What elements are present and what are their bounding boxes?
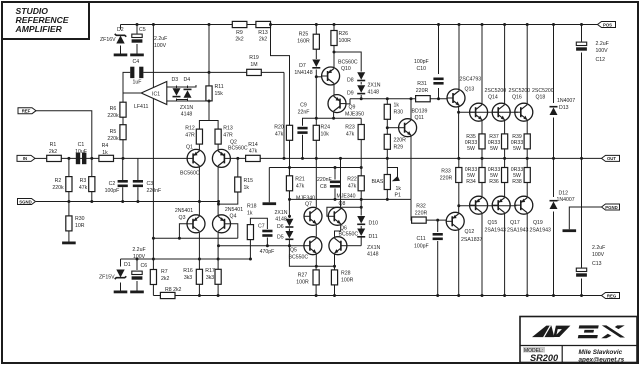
transistor Q8 — [328, 194, 355, 226]
resistor R36 — [488, 167, 508, 185]
capacitor C2 — [105, 180, 128, 194]
svg-text:R25: R25 — [299, 32, 309, 38]
wire R34 to Q15 emitter — [481, 183, 483, 198]
svg-text:R13: R13 — [258, 30, 268, 36]
svg-text:1M: 1M — [250, 62, 257, 68]
svg-text:2SA1943: 2SA1943 — [530, 228, 551, 234]
transistor Q2 — [212, 140, 247, 168]
wire Q13 collector column — [458, 25, 460, 90]
diode D10 — [357, 216, 378, 227]
svg-text:2k2: 2k2 — [259, 37, 267, 43]
wire IC supply column — [152, 25, 154, 260]
wire R35 to out rail — [481, 149, 483, 159]
wire Q3 base jog — [179, 224, 187, 238]
svg-text:Q15: Q15 — [488, 220, 498, 226]
junction dot at Q11 base — [386, 126, 389, 129]
wire Q3 Q4 base bias line — [153, 237, 237, 239]
diode D11 — [357, 229, 380, 258]
capacitor C4 — [130, 59, 143, 86]
svg-text:2SC5200: 2SC5200 — [532, 88, 554, 94]
diode D7 — [294, 60, 320, 77]
MODEL text — [523, 347, 545, 353]
wire R24 column — [315, 118, 317, 125]
wire D1 column — [120, 259, 122, 267]
svg-text:C13: C13 — [592, 261, 602, 267]
svg-text:47k: 47k — [296, 184, 305, 190]
svg-text:C8: C8 — [320, 184, 327, 190]
node OUT — [602, 155, 620, 161]
wire REF line — [36, 111, 92, 159]
wire IC1 output to C4 and R6 — [123, 72, 141, 93]
svg-text:1k: 1k — [394, 103, 400, 109]
resistor R32 — [412, 204, 428, 224]
footer APEX logo box — [520, 317, 637, 364]
resistor R8 — [160, 287, 181, 299]
svg-text:D11: D11 — [369, 234, 378, 240]
wire D11 to Q6 base — [347, 245, 361, 247]
wire predriver base line — [350, 98, 416, 100]
svg-text:1k: 1k — [247, 211, 253, 217]
svg-text:MJE350: MJE350 — [345, 112, 364, 118]
svg-text:D8: D8 — [347, 78, 354, 84]
svg-text:2.2uF: 2.2uF — [132, 247, 145, 253]
capacitor C3 — [133, 180, 161, 194]
wire Q14 emitter to R35 — [481, 121, 483, 134]
wire D2 column — [120, 25, 122, 30]
svg-text:R6: R6 — [110, 106, 117, 112]
op-amp IC1 — [134, 82, 167, 111]
svg-text:Q3: Q3 — [179, 215, 186, 221]
svg-text:D2: D2 — [117, 27, 124, 33]
wire D13 column — [553, 25, 555, 104]
resistor R35 — [465, 134, 485, 152]
transistor Q10 — [322, 60, 358, 86]
svg-text:R30: R30 — [75, 216, 85, 222]
svg-text:BC560C: BC560C — [228, 146, 248, 152]
wire D9 bottom to base line — [360, 95, 362, 99]
svg-text:Q5: Q5 — [290, 248, 297, 254]
svg-text:Q18: Q18 — [536, 95, 546, 101]
svg-text:R33: R33 — [441, 169, 451, 175]
wire bottom negative rail — [153, 295, 160, 297]
resistor R9 — [232, 21, 247, 42]
transistor Q5 — [289, 237, 322, 261]
svg-text:2SA1943: 2SA1943 — [507, 228, 528, 234]
svg-text:2.2uF: 2.2uF — [596, 41, 609, 47]
svg-text:220R: 220R — [394, 138, 407, 144]
svg-text:47k: 47k — [346, 132, 355, 138]
svg-text:1k: 1k — [396, 186, 402, 192]
svg-text:10R: 10R — [75, 223, 85, 229]
wire Q4 base jog — [231, 224, 238, 238]
wire D8 D9 link — [360, 82, 362, 85]
transistor Q14 — [470, 88, 507, 121]
svg-text:R8 2k2: R8 2k2 — [165, 287, 182, 293]
capacitor C7 — [258, 224, 274, 256]
svg-text:R23: R23 — [345, 125, 355, 131]
svg-text:C12: C12 — [596, 57, 606, 63]
svg-text:2.2uF: 2.2uF — [154, 36, 167, 42]
wire R33 column — [458, 158, 460, 167]
svg-text:2N5401: 2N5401 — [175, 208, 193, 214]
svg-text:R30: R30 — [394, 110, 404, 116]
wire D5 to Q5 emitter line — [289, 246, 334, 267]
svg-text:R16: R16 — [183, 268, 193, 274]
resistor R28 — [331, 270, 353, 285]
wire R37 to out rail — [504, 149, 506, 159]
wire R12 to Q1 emitter — [198, 144, 200, 150]
ground PGND bar — [563, 229, 577, 232]
svg-text:2SC5200: 2SC5200 — [485, 88, 507, 94]
svg-text:R15: R15 — [244, 178, 254, 184]
junction dots on opamp feedback line — [208, 71, 211, 103]
svg-text:2X1N: 2X1N — [275, 210, 288, 216]
svg-text:C7: C7 — [258, 224, 265, 230]
resistor R13b — [215, 126, 233, 145]
wire M2 line — [290, 198, 412, 200]
wire C12 C13 column — [581, 25, 583, 42]
svg-text:2X1N: 2X1N — [368, 83, 381, 89]
wire C10 column — [438, 25, 440, 75]
zener D2 — [100, 27, 126, 44]
resistor R26 — [331, 31, 351, 46]
svg-text:R29: R29 — [394, 145, 404, 151]
wire IC1 input stubs with D3 D4 — [167, 85, 196, 87]
svg-text:IN: IN — [23, 156, 27, 161]
svg-text:R7: R7 — [161, 269, 168, 275]
wire R15 column — [237, 158, 239, 177]
wire Q11 base — [387, 127, 398, 129]
wire Q7 collector up to mid rail — [315, 158, 317, 207]
svg-text:5W: 5W — [467, 146, 475, 152]
wire R11 column — [208, 25, 210, 86]
resistor R21 — [286, 176, 304, 191]
diode D4 — [180, 77, 194, 118]
wire C9 top corner — [303, 118, 317, 126]
svg-text:D10: D10 — [369, 221, 379, 227]
svg-text:Q1: Q1 — [186, 145, 193, 151]
resistor R1 — [47, 142, 62, 161]
wire top positive rail — [121, 24, 233, 26]
resistor R15 — [235, 177, 253, 192]
svg-text:220nF: 220nF — [317, 177, 332, 183]
svg-text:Q8: Q8 — [339, 201, 346, 207]
svg-text:10uF: 10uF — [75, 149, 87, 155]
svg-text:R2: R2 — [55, 178, 62, 184]
ground under C5 — [130, 54, 144, 57]
node IN — [17, 155, 35, 161]
svg-text:5W: 5W — [490, 146, 498, 152]
wire diff pair tail — [199, 121, 218, 130]
svg-text:R12: R12 — [185, 126, 195, 132]
svg-text:470pF: 470pF — [260, 249, 275, 255]
capacitor C11 — [414, 233, 443, 250]
svg-text:R20: R20 — [274, 125, 284, 131]
wire R19 feedback column — [283, 72, 285, 158]
resistor R2 — [52, 177, 72, 192]
svg-text:100pF: 100pF — [414, 59, 429, 65]
svg-text:220R: 220R — [416, 88, 429, 94]
wire Q10 collector node to D8 — [334, 52, 361, 72]
wire Q9 base jog to predriver line — [346, 99, 350, 104]
svg-text:BC560C: BC560C — [180, 171, 200, 177]
wire Q15 collector to neg rail — [481, 214, 483, 296]
svg-text:Q17: Q17 — [510, 220, 520, 226]
potentiometer P1 BIAS — [372, 168, 402, 199]
wire D7 node to Q10 base — [316, 76, 323, 78]
svg-text:Q13: Q13 — [465, 87, 475, 93]
svg-text:C10: C10 — [417, 66, 427, 72]
svg-text:2.2uF: 2.2uF — [592, 245, 605, 251]
svg-text:2k2: 2k2 — [235, 37, 243, 43]
svg-text:100pF: 100pF — [105, 188, 120, 194]
svg-text:D13: D13 — [559, 105, 569, 111]
transistor Q1 — [180, 145, 205, 177]
svg-text:4148: 4148 — [368, 90, 380, 96]
resistor R16 — [183, 268, 202, 284]
svg-text:4148: 4148 — [181, 112, 193, 118]
resistor R23 — [345, 125, 364, 140]
svg-text:ZX1N: ZX1N — [367, 245, 381, 251]
resistor R25 — [297, 32, 319, 50]
svg-text:1k: 1k — [244, 185, 250, 191]
wire R21 stubs — [289, 168, 291, 176]
capacitor C6 — [132, 247, 148, 280]
svg-text:2k2: 2k2 — [161, 276, 169, 282]
ground under R30 — [62, 242, 76, 245]
svg-text:220R: 220R — [415, 211, 428, 217]
capacitor C8 — [317, 177, 340, 190]
resistor R6 — [107, 102, 126, 119]
wire PGND line and stem — [569, 207, 601, 229]
junction dot at Q12 base — [436, 219, 439, 222]
svg-text:OUT: OUT — [607, 156, 616, 161]
resistor R18 — [247, 204, 257, 240]
capacitor C10 — [414, 59, 444, 85]
junction dots on line M2 — [288, 198, 389, 201]
wire Q8 emitter to Q6 — [335, 225, 341, 237]
svg-text:2k2: 2k2 — [49, 149, 57, 155]
junction dots on front-end negative line — [136, 258, 252, 261]
diode D6 — [277, 219, 293, 230]
svg-text:R27: R27 — [298, 273, 308, 279]
svg-text:5W: 5W — [513, 146, 521, 152]
svg-text:BC550C: BC550C — [339, 232, 359, 238]
svg-text:D3: D3 — [172, 77, 179, 83]
wire C2 column — [122, 158, 124, 180]
svg-text:C11: C11 — [417, 236, 426, 242]
svg-text:100R: 100R — [341, 278, 354, 284]
svg-text:Q12: Q12 — [465, 229, 475, 235]
wire rail branch to R20 column — [271, 25, 290, 126]
svg-text:1k: 1k — [102, 150, 108, 156]
wire PNP output base line — [459, 205, 517, 207]
junction dots on predriver base line — [360, 97, 440, 100]
svg-text:4148: 4148 — [275, 217, 287, 223]
wire D12 column — [553, 158, 555, 197]
svg-text:100pF: 100pF — [414, 244, 429, 250]
svg-text:R19: R19 — [249, 55, 259, 61]
svg-text:BC550C: BC550C — [289, 255, 309, 261]
svg-text:47k: 47k — [249, 149, 258, 155]
wire Q1 collector to Q3 — [198, 167, 200, 215]
junction dots on positive rail — [136, 23, 584, 26]
junction dots on bias line A — [217, 244, 291, 247]
wire Q3 collector down to line B — [198, 233, 200, 259]
resistor R27 — [296, 270, 319, 286]
resistor R37 — [488, 134, 508, 152]
diode D5 — [275, 210, 294, 241]
resistor R13 — [256, 21, 271, 42]
svg-text:1N4148: 1N4148 — [294, 70, 312, 76]
ground mid bar — [263, 202, 277, 205]
svg-text:R13: R13 — [223, 126, 233, 132]
svg-text:R32: R32 — [416, 204, 426, 210]
svg-text:100R: 100R — [339, 38, 352, 44]
wire Q4 collector down to line B — [217, 233, 219, 259]
svg-text:D1: D1 — [124, 262, 131, 268]
svg-text:47k: 47k — [348, 184, 357, 190]
wire R28 column — [334, 266, 336, 270]
transistor Q6 — [329, 226, 358, 255]
resistor R7 — [150, 269, 169, 285]
svg-text:P1: P1 — [395, 193, 401, 199]
svg-text:C1: C1 — [78, 142, 85, 148]
svg-text:220nF: 220nF — [147, 188, 162, 194]
svg-text:LF411: LF411 — [134, 104, 148, 110]
svg-text:Q10: Q10 — [341, 66, 351, 72]
svg-text:2N5401: 2N5401 — [225, 207, 243, 213]
junction dots on SGND line — [67, 200, 220, 206]
transistor Q9 — [328, 95, 364, 118]
transistor Q7 — [296, 196, 322, 226]
resistor R31 — [416, 81, 431, 102]
node POS — [598, 22, 616, 28]
svg-text:R17: R17 — [205, 268, 215, 274]
wire Q12 emitter stub — [458, 206, 460, 214]
wire Q7 emitter to Q5 — [315, 225, 317, 236]
transistor Q11 — [399, 109, 428, 137]
svg-text:47k: 47k — [275, 132, 284, 138]
svg-text:R31: R31 — [417, 81, 427, 87]
ground under D1 — [114, 291, 128, 294]
wire line A (bias line to Q5 base) — [219, 245, 307, 247]
wire Q18 collector column — [526, 25, 528, 105]
wire C11 column — [437, 220, 439, 232]
wire Q2 collector to Q4 — [217, 167, 219, 215]
svg-text:C4: C4 — [133, 59, 140, 65]
wire R7 column — [152, 259, 154, 270]
wire Q12 collector to neg rail — [458, 229, 460, 296]
svg-text:Q7: Q7 — [305, 202, 312, 208]
wire C6 column — [136, 259, 138, 270]
resistor R30a — [384, 103, 403, 120]
svg-text:apex@eunet.rs: apex@eunet.rs — [579, 357, 625, 364]
wire R13b to Q2 emitter — [217, 144, 219, 150]
svg-text:2SA1837: 2SA1837 — [461, 237, 482, 243]
resistor R12 — [185, 126, 202, 145]
svg-text:R14: R14 — [248, 142, 258, 148]
wire C5 column — [136, 25, 138, 34]
resistor R19 — [247, 55, 262, 76]
junction dots on input line — [67, 157, 124, 160]
resistor R29 — [384, 134, 406, 150]
svg-text:BD139: BD139 — [412, 109, 428, 115]
wire C3 column — [137, 158, 139, 180]
svg-text:220k: 220k — [107, 113, 119, 119]
wire R25 D7 column — [315, 25, 317, 35]
svg-text:BIAS: BIAS — [372, 179, 384, 185]
wire R26 column — [333, 25, 335, 31]
wire line 118.3 to R23b — [316, 117, 361, 119]
wire M1 ground stem — [268, 168, 270, 203]
wire M1 ground line — [269, 167, 361, 169]
svg-text:220k: 220k — [52, 185, 64, 191]
svg-text:220R: 220R — [440, 176, 453, 182]
wire Q14 collector column — [481, 25, 483, 105]
wire D6 D5 column — [288, 168, 290, 219]
ground under C6 — [130, 291, 144, 294]
svg-text:100R: 100R — [296, 280, 309, 286]
svg-text:SR200: SR200 — [530, 353, 559, 363]
svg-text:3k3: 3k3 — [184, 275, 192, 281]
resistor R3 — [79, 177, 95, 192]
capacitor C13 — [576, 245, 605, 277]
svg-text:22nF: 22nF — [298, 110, 310, 116]
resistor R5 — [107, 125, 126, 142]
resistor R33 — [440, 168, 462, 183]
svg-text:BC560C: BC560C — [338, 60, 358, 66]
resistor R24 — [313, 125, 330, 141]
transistor Q15 — [470, 196, 506, 233]
wire Q8 collector up to mid rail — [340, 158, 342, 207]
svg-text:1uF: 1uF — [133, 80, 142, 86]
APEX letter A — [532, 326, 554, 338]
resistor R38 — [511, 167, 531, 185]
svg-text:C2: C2 — [109, 181, 116, 187]
svg-text:4148: 4148 — [367, 252, 379, 258]
ground under D2 — [114, 54, 128, 57]
junction dots on Q5 Q6 emitter line — [315, 265, 336, 268]
svg-text:2SC5200: 2SC5200 — [509, 88, 531, 94]
wire C8 stubs — [334, 168, 336, 180]
transistor Q16 — [492, 88, 530, 121]
svg-text:R4: R4 — [102, 143, 109, 149]
wire Q18 emitter to R39 — [526, 121, 528, 134]
svg-text:1N4007: 1N4007 — [557, 98, 575, 104]
svg-text:100V: 100V — [596, 48, 609, 54]
junction dots on Q3 Q4 base bias line — [152, 237, 181, 240]
junction dots on VAS feed line — [315, 51, 336, 120]
wire R18 C7 loop — [250, 218, 267, 229]
resistor R30 — [66, 216, 85, 231]
transistor Q3 — [175, 208, 205, 233]
svg-text:R18: R18 — [247, 204, 257, 210]
resistor R11 — [206, 84, 224, 101]
wire R39 to out rail — [526, 149, 528, 159]
svg-text:47k: 47k — [79, 185, 88, 191]
diode D9 — [347, 83, 381, 97]
svg-text:SGND: SGND — [19, 199, 31, 204]
svg-text:D7: D7 — [299, 63, 306, 69]
node REF — [18, 108, 36, 114]
wire R2 column — [68, 158, 70, 176]
svg-text:1N4007: 1N4007 — [557, 197, 575, 203]
wire R22 column — [360, 140, 362, 176]
capacitor C9 — [297, 103, 309, 134]
svg-text:D5: D5 — [277, 235, 284, 241]
resistor R17 — [205, 268, 221, 284]
